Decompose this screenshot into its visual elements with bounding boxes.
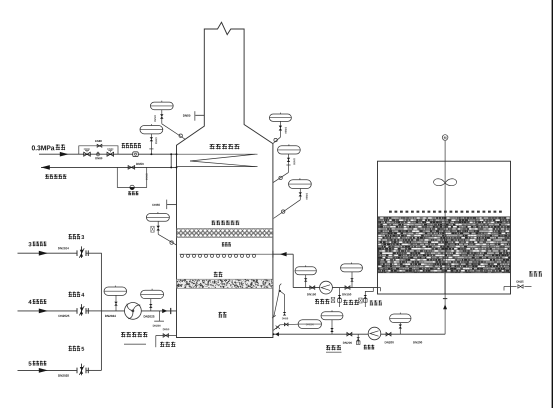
pipe: damper 3 to header [86, 252, 101, 254]
node steam line at tower wall [176, 153, 178, 155]
label DN50 left of PI-1 stem (vertical) [154, 115, 156, 121]
junction node steam line x link [170, 153, 172, 155]
label DN50 right of PI-2 stem (vertical) [155, 138, 157, 144]
junction node on standpipe [279, 290, 281, 292]
label DN2000 damper 3 [58, 247, 69, 249]
label DN200 return left [343, 342, 352, 344]
label: steam condensate water [45, 174, 66, 179]
flow arrow up into tank [443, 304, 447, 309]
label DN200 return right [385, 341, 394, 343]
pipe: flue gas header vertical [100, 253, 102, 371]
pipe: No.5 boiler flue gas inlet [18, 369, 77, 371]
baffle demister band inside tower [177, 229, 273, 238]
junction node condensate line x link [170, 166, 172, 168]
tap junction circle PI-3 [170, 241, 173, 244]
label DN200 drain tee [153, 325, 161, 327]
drain valve (paiwufa) at tower bottom [163, 334, 168, 338]
pipe: No.3 boiler flue gas inlet [18, 252, 77, 254]
overflow standpipe from tower wall [274, 284, 282, 317]
agitator impeller blades [434, 179, 457, 186]
label DN2000 damper 5 [58, 375, 69, 377]
flange tick after damper 4 [87, 308, 89, 314]
pipe: No.4 boiler flue gas inlet [18, 310, 77, 312]
valve on PI-2 stem to steam line [150, 134, 152, 154]
instrument line with inline tag bubble near tower [273, 324, 298, 330]
slurry tank shell [378, 161, 511, 294]
flange tick on tank bottom pipe [443, 298, 447, 300]
instrument bubble PI-9 on pump discharge [295, 267, 316, 275]
label: damper door 4 [69, 292, 81, 297]
pipe: steam condensate return [41, 166, 177, 168]
instrument bubble PI-11 on return line [321, 312, 343, 320]
instrument bubble PI-2 left [140, 126, 163, 134]
packing band inside tower [177, 279, 273, 288]
instrument bubble PI-7 fan suction [104, 287, 127, 295]
circulation pump [320, 281, 333, 294]
label DN150 suction [342, 293, 351, 295]
flange tick fan discharge at drain header [170, 308, 172, 314]
damper valve 4 (dangbanmen) [76, 308, 78, 314]
label: damper door 5 [69, 346, 81, 351]
slurry hatch fill in tank [378, 217, 510, 273]
label: steam trap (shushuiqi) [128, 191, 138, 195]
label DN50 PI-6 (vertical) [306, 193, 308, 199]
tap junction circle PI-5 [279, 176, 282, 179]
drawing frame right border [551, 0, 553, 408]
label DN50 PI-4 (vertical) [285, 127, 287, 133]
variable frequency induced draft fan [124, 303, 141, 320]
damper valve 3 (dangbanmen) [76, 250, 78, 256]
label: slurry pool (jiangchi) [218, 312, 226, 318]
valve on PI-9 stem [305, 275, 307, 288]
flow arrow flue gas 3 [39, 251, 48, 256]
spray header line with nozzles [180, 253, 273, 255]
valve on return line left of pump [347, 332, 352, 336]
flow arrow steam supply [60, 152, 69, 157]
return pump [368, 327, 381, 340]
label: damper door 3 [69, 234, 81, 239]
valve on PI-6 stem [299, 189, 301, 200]
label DN80 bypass [95, 140, 102, 142]
suction valve circulation pump [345, 286, 350, 290]
gate valve V2 on steam line [107, 152, 114, 156]
pipe: tower bottom drain [156, 335, 177, 337]
label: VFD induced draft fan with underline [121, 332, 147, 337]
steam bypass loop [79, 146, 118, 154]
box glyph left of vent drop [331, 297, 335, 302]
label DN2000 PI-8 [144, 315, 155, 317]
valve on PI-3 stem [157, 221, 159, 234]
pipe: damper 5 to header [86, 369, 101, 371]
pipe: return line from tank to tower pool [273, 333, 445, 335]
flow arrow fan discharge [162, 309, 167, 313]
steam trap bypass loop [117, 167, 146, 187]
node PI-2 stem at steam line [150, 153, 152, 155]
inline tag bubble with text [298, 320, 321, 329]
flow arrow flue gas 5 [39, 368, 48, 373]
discharge valve circulation pump [310, 286, 315, 290]
pipe: header to induced draft fan [101, 310, 176, 312]
agitator motor M [442, 135, 448, 141]
label: circulation pump (xunhuanbeng) [315, 299, 329, 304]
valve on PI-8 stem [150, 299, 152, 311]
damper valve 5 (dangbanmen) [76, 368, 78, 374]
label DN2000 damper 4 [59, 315, 70, 317]
box glyph left of drain drop [359, 298, 363, 303]
flow arrow into spray header [280, 252, 287, 256]
label DN2000 PI-7 [105, 315, 116, 317]
label: vent valve (paikongfa) [343, 300, 358, 305]
flow arrow flue gas 4 [39, 309, 48, 314]
label DN50 drain [163, 328, 169, 330]
node return line at tower wall [272, 333, 274, 335]
sensing line PI-5 to tower wall [273, 172, 288, 182]
branch with valve to drain stub [280, 291, 285, 312]
flange tick after damper 3 [87, 250, 89, 256]
valve on condensate line [128, 166, 135, 170]
valve on PI-4 stem [279, 121, 281, 137]
instrument bubble PI-12 on return line right [390, 314, 411, 323]
label DN200 near tank riser [413, 341, 422, 343]
valve on PI-10 stem [351, 272, 353, 288]
vent drop with valve on return line [357, 334, 359, 344]
valve on bypass [97, 144, 102, 147]
capped stub nozzle on chimney left wall [195, 114, 204, 116]
label: drain valve (paiwufa) near tank [370, 300, 382, 305]
valve on PI-1 sensing stem [161, 110, 163, 124]
label DN50 PI-5 (vertical) [293, 158, 295, 164]
drain drop with valve on suction line [365, 288, 373, 307]
strainer/orifice between valves [97, 153, 100, 156]
instrument bubble PI-6 right [289, 180, 312, 189]
wall crossing tick on spray line [272, 251, 274, 258]
flow arrow condensate (to left) [41, 165, 50, 170]
valve on PI-12 stem [399, 323, 401, 335]
label: No.5 boiler flue gas [29, 361, 32, 365]
instrument bubble PI-10 on pump suction [341, 264, 363, 272]
tap junction circle on left shoulder [179, 134, 182, 137]
valve on PI-5 stem [288, 154, 290, 172]
tank center pipe over hatch [444, 217, 446, 294]
agitator shaft and tank center pipe [444, 141, 446, 335]
valve on PI-7 stem [115, 295, 117, 311]
label: packing (tianliao) [214, 272, 223, 277]
label: spray pipe (penlinguan) [222, 242, 231, 246]
makeup water pipe into tank [504, 286, 511, 288]
label DN25 makeup [517, 281, 524, 283]
sensing line PI-4 to right shoulder [273, 137, 281, 143]
label: No.4 boiler flue gas [28, 300, 31, 304]
valve on return line right of pump [386, 332, 391, 336]
sensing line PI-6 to tower wall [274, 200, 301, 219]
steam trap [130, 185, 134, 189]
instrument bubble PI-8 fan discharge [141, 290, 164, 298]
valve on PI-11 stem [331, 320, 333, 334]
label box left of PI-3 stem [151, 226, 154, 232]
label: makeup water valve [529, 271, 542, 277]
capped drain nozzle below fan duct [159, 311, 161, 321]
pipe: steam supply 0.3MPa to heater [39, 153, 177, 155]
label: 0.3MPa steam [32, 145, 55, 150]
pipe: damper 4 to header [86, 310, 101, 312]
pipe: tank to circulation pump to spray riser [293, 287, 378, 289]
instrument bubble PI-3 left mid [146, 214, 169, 222]
label DN50 wall stub [153, 204, 160, 206]
tap junction circle PI-6 [282, 210, 285, 213]
steam heater coil (zigzag) inside tower top [177, 153, 258, 155]
label DN50 chimney stub [183, 115, 190, 117]
label: No.3 boiler flue gas [28, 242, 31, 246]
label: steam heater (zhengqi jiareqi) [210, 144, 240, 149]
flow arrow into tower pool [275, 332, 279, 336]
label: drain valve below tower [160, 342, 175, 347]
sensing line PI-1 to tower shoulder [162, 124, 186, 140]
flange tick after damper 5 [87, 368, 89, 374]
label: steam flow meter (zhengqi liuliangji) [122, 143, 141, 148]
label DN50 standpipe drain [282, 318, 288, 320]
liquid level bead line in tank [389, 211, 502, 213]
label DN50 condensate valve [136, 163, 143, 165]
label DN150 discharge [307, 293, 316, 295]
absorber tower shell with chimney and break symbol [177, 22, 273, 337]
label: return pump (huiliubeng) with underline [326, 345, 341, 350]
gate valve V1 on steam line [84, 152, 91, 156]
spray supply pipe from circulation pump riser [273, 253, 293, 255]
tap junction circle right shoulder [274, 138, 277, 141]
instrument bubble PI-4 right of chimney [269, 114, 291, 121]
sensing line PI-3 to tower wall [158, 234, 176, 245]
label DN80 above V2 [107, 148, 113, 150]
label: baffle demister (zheliuban chuwuqi) [212, 221, 240, 226]
vent drop with valve on suction line [339, 288, 341, 307]
label DN80 below orifice [95, 157, 102, 159]
capped stub nozzle on tower left wall [167, 204, 177, 206]
pipe: link between steam and condensate lines [170, 154, 172, 167]
instrument bubble PI-5 right [278, 146, 301, 154]
label DN50 on trap riser (vertical) [146, 174, 148, 180]
node condensate line at tower wall [176, 166, 178, 168]
label: vent valve return line [364, 345, 375, 350]
makeup water valve (bushuifa) [518, 285, 523, 288]
steam flow meter element [133, 152, 138, 157]
label DN80 above V1 [84, 148, 90, 150]
instrument bubble PI-1 upper left [150, 102, 173, 110]
